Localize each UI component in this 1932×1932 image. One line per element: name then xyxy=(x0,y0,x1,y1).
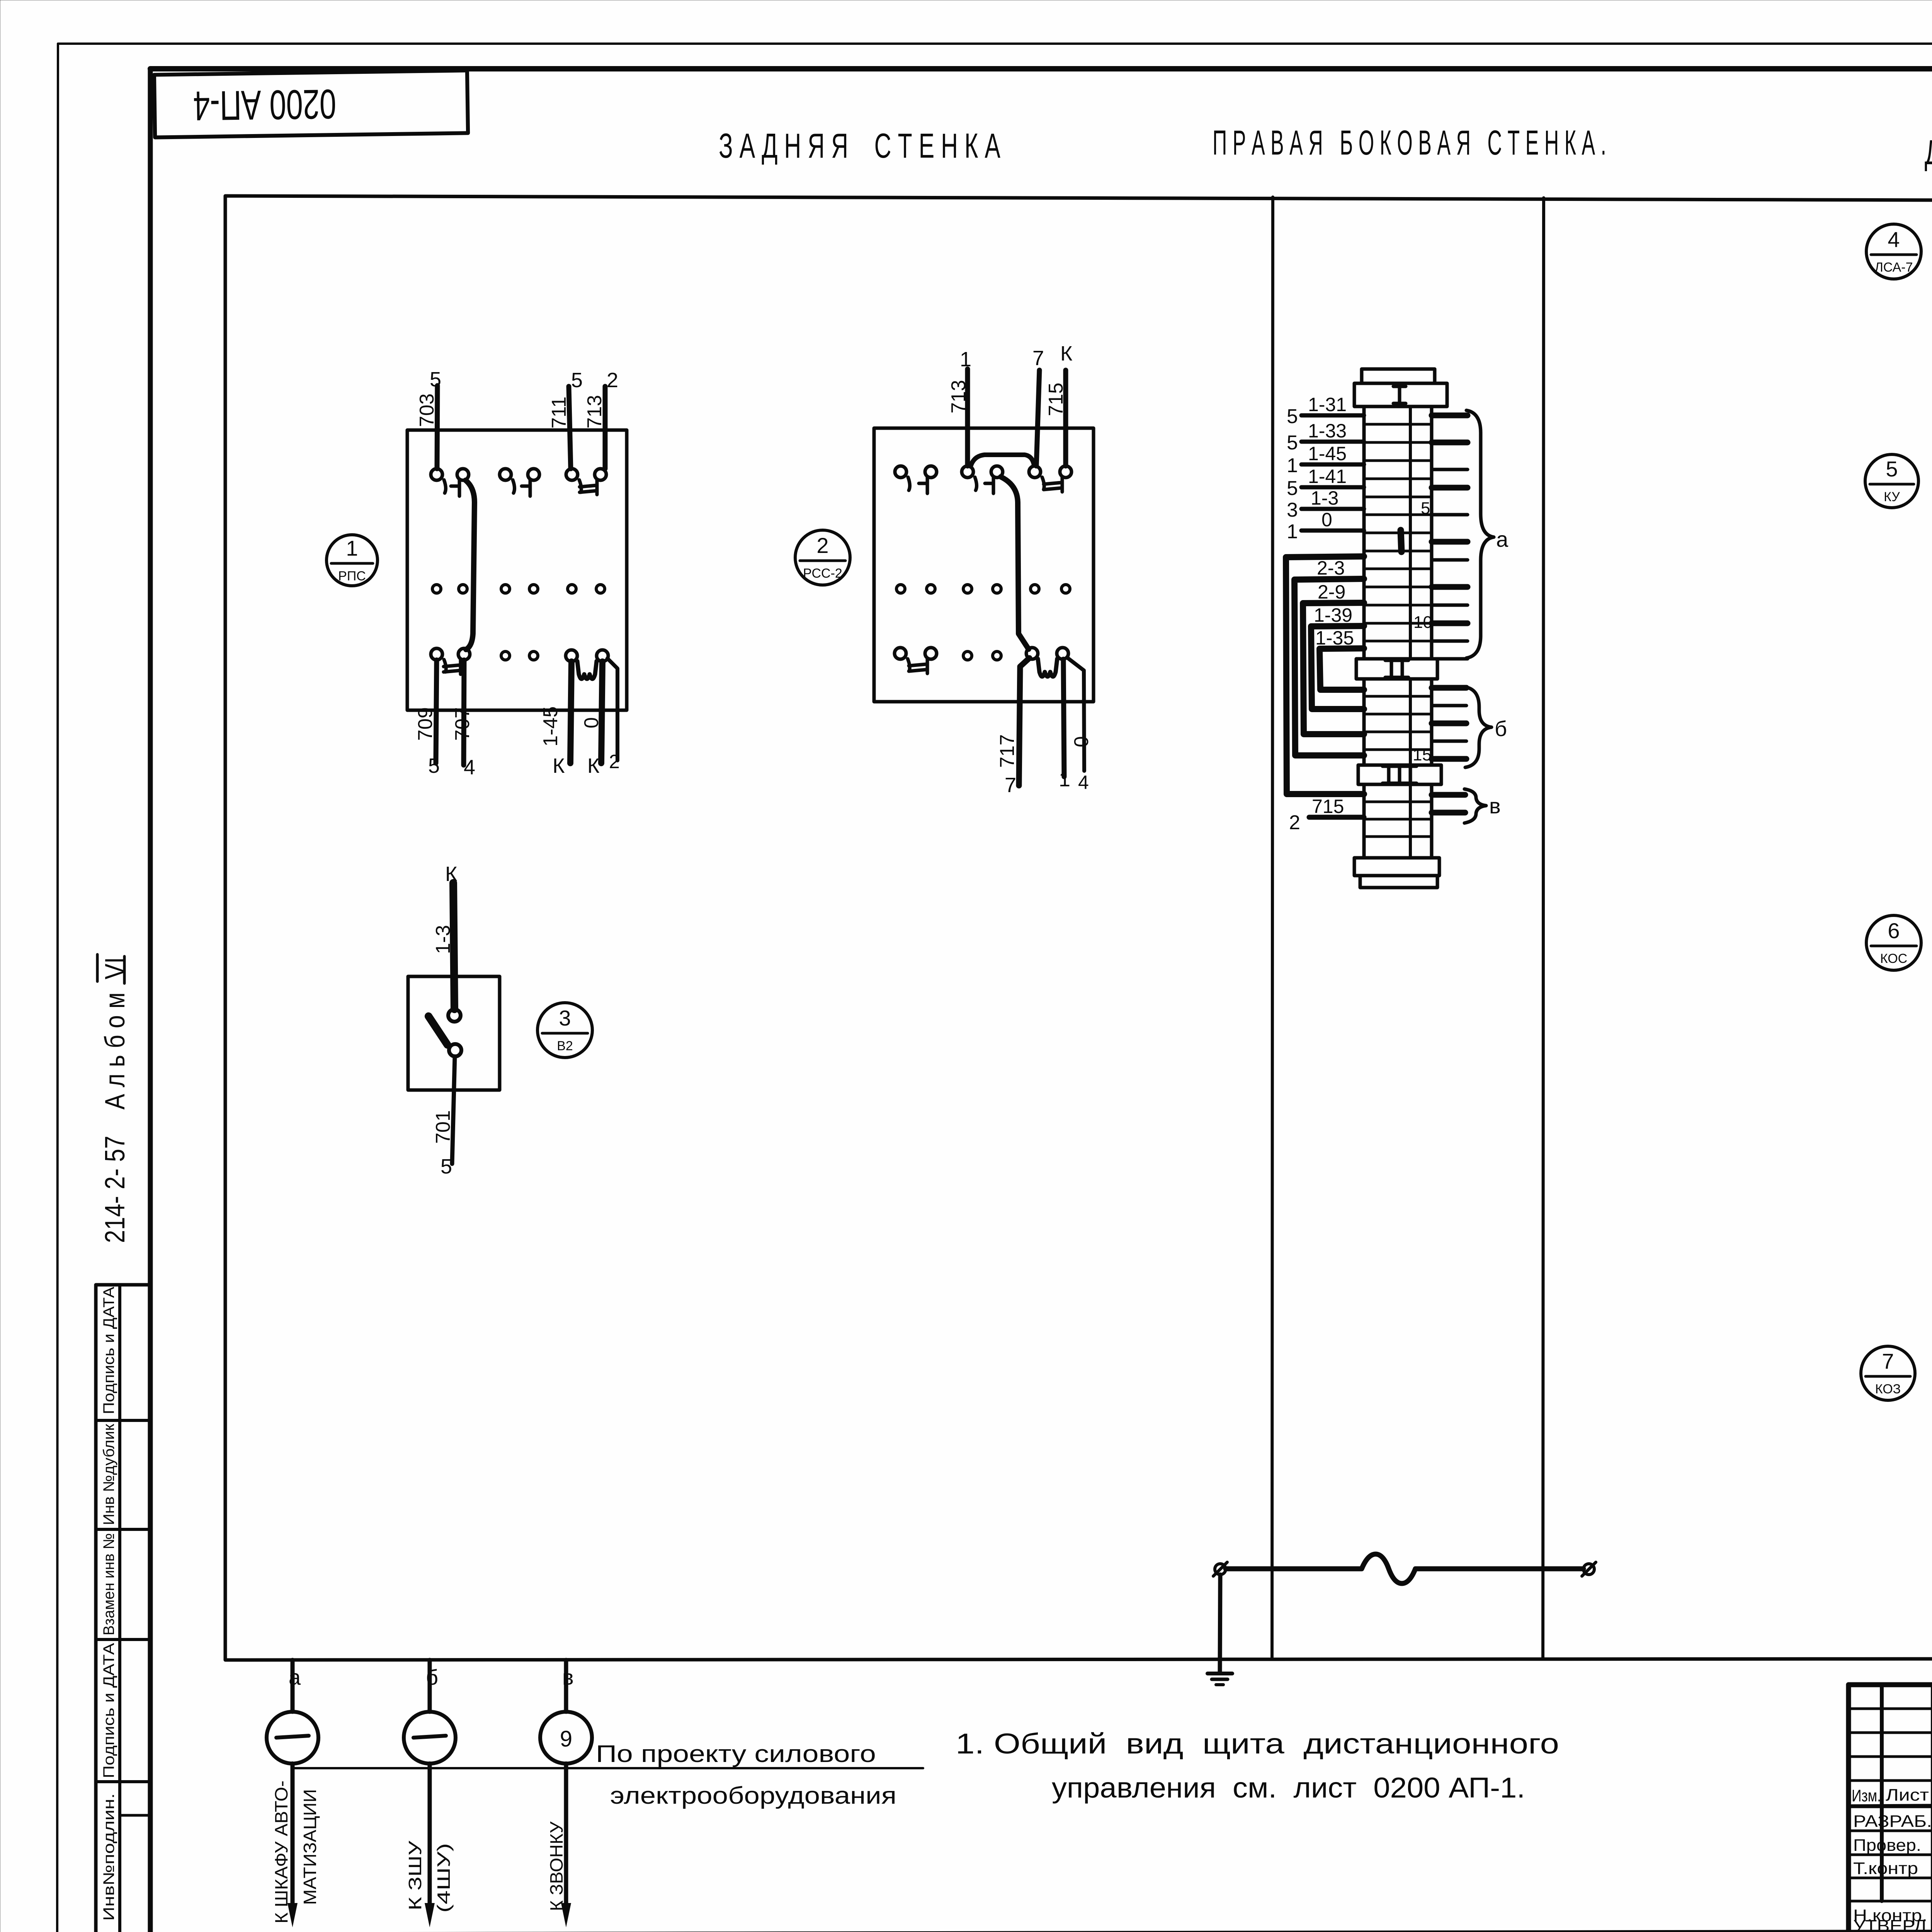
relay coil symbol xyxy=(1038,659,1057,677)
svg-text:1-41: 1-41 xyxy=(1308,466,1347,487)
wire 715 to strip xyxy=(1309,815,1364,820)
svg-text:2-9: 2-9 xyxy=(1318,581,1345,603)
loop wire 2-9 xyxy=(1303,603,1364,734)
svg-text:3: 3 xyxy=(559,1006,571,1030)
wire 707 xyxy=(464,660,464,765)
wire 703 xyxy=(437,386,437,469)
svg-text:1: 1 xyxy=(960,348,971,371)
designator circle 2/РСС-2 xyxy=(795,530,850,585)
contact symbol (NO) xyxy=(513,480,515,493)
РПС middle pins xyxy=(432,585,441,593)
cable to automation cabinet xyxy=(267,1660,320,1927)
svg-text:Взамен инв №: Взамен инв № xyxy=(100,1533,117,1636)
svg-text:Инв№подлин.: Инв№подлин. xyxy=(100,1793,117,1921)
rungs section I xyxy=(1364,423,1432,426)
loop wire row9 to section III xyxy=(1286,556,1364,794)
svg-text:1-31: 1-31 xyxy=(1308,394,1347,415)
svg-text:УТВЕРД.: УТВЕРД. xyxy=(1853,1917,1932,1932)
margin stamp table xyxy=(96,1285,150,1932)
svg-text:КОЗ: КОЗ xyxy=(1875,1382,1901,1396)
svg-text:Инв №дублик: Инв №дублик xyxy=(100,1423,117,1525)
brace б xyxy=(1465,687,1492,767)
loop wire 2-3 xyxy=(1294,579,1364,755)
svg-text:К ЗШУ: К ЗШУ xyxy=(405,1840,425,1910)
РПС coil terminals xyxy=(566,650,577,662)
sheet frame xyxy=(150,66,1932,71)
svg-text:1-35: 1-35 xyxy=(1315,627,1354,649)
svg-text:214- 2- 57 А л ь б о м VI: 214- 2- 57 А л ь б о м VI xyxy=(100,957,131,1243)
wire 7 (РСС-2 top) xyxy=(1036,370,1039,466)
svg-text:К: К xyxy=(1060,342,1073,365)
svg-text:6: 6 xyxy=(1888,918,1900,943)
svg-text:7: 7 xyxy=(1032,347,1044,370)
svg-text:Изм.: Изм. xyxy=(1852,1786,1881,1805)
В2 lever xyxy=(429,1016,447,1045)
РСС-2 coil terminals xyxy=(1026,648,1038,659)
contact symbol (NO) xyxy=(975,477,977,490)
svg-text:ЛСА-7: ЛСА-7 xyxy=(1874,260,1913,275)
wire 1-45 xyxy=(570,662,571,763)
label I xyxy=(1398,386,1401,403)
svg-text:2: 2 xyxy=(816,533,828,558)
title block column lines (left part) xyxy=(1880,1685,1884,1901)
strip right stubs section III xyxy=(1432,792,1465,798)
РСС-2 middle pins xyxy=(896,585,905,593)
svg-text:П Р А В А Я Б О К О В А Я: П Р А В А Я Б О К О В А Я С Т Е Н К А . xyxy=(1213,124,1606,162)
designator circle 7/КОЗ xyxy=(1861,1346,1915,1400)
svg-text:1-3: 1-3 xyxy=(1311,487,1338,509)
strip right stubs section I xyxy=(1432,413,1468,418)
svg-text:Провер.: Провер. xyxy=(1853,1836,1921,1855)
doc code box 0200 АП-4 (rotated) xyxy=(154,70,468,137)
wire 4 (diagonal tap РСС-2) xyxy=(1067,658,1084,771)
ground symbol xyxy=(1207,1672,1232,1675)
svg-text:713: 713 xyxy=(947,380,970,413)
svg-text:К ШКАФУ АВТО-: К ШКАФУ АВТО- xyxy=(271,1781,291,1923)
svg-text:МАТИЗАЦИИ: МАТИЗАЦИИ xyxy=(300,1789,320,1905)
svg-text:1-39: 1-39 xyxy=(1314,604,1352,626)
svg-text:9: 9 xyxy=(560,1726,572,1752)
left jumper terminal xyxy=(1215,1564,1226,1575)
svg-text:5: 5 xyxy=(440,1155,452,1178)
svg-text:Лист: Лист xyxy=(1886,1786,1929,1804)
svg-text:4: 4 xyxy=(1078,772,1089,793)
svg-text:7: 7 xyxy=(1005,774,1016,797)
ground jumper wire with flexible link xyxy=(1207,1554,1596,1685)
brace a xyxy=(1466,410,1494,658)
section III header box xyxy=(1358,765,1441,784)
contact symbol (NC) xyxy=(444,660,446,672)
svg-text:электрооборудования: электрооборудования xyxy=(610,1782,896,1809)
wall divider right (between right side wall and door) xyxy=(1543,198,1544,1659)
wire 1-31 to strip xyxy=(1301,413,1364,418)
РПС bottom-left terminals xyxy=(431,648,442,660)
rungs section III xyxy=(1364,801,1432,803)
svg-text:1-45: 1-45 xyxy=(1308,443,1347,464)
section II header box xyxy=(1356,659,1437,679)
svg-text:К: К xyxy=(445,862,457,886)
terminal block КОЗ (component 7) xyxy=(1861,1202,1932,1610)
svg-text:(4ШУ): (4ШУ) xyxy=(434,1843,454,1913)
wire 2 (diagonal tap) xyxy=(607,658,617,760)
wire 701 / 5 xyxy=(452,1056,455,1164)
РСС-2 lower middle pins xyxy=(963,651,972,660)
svg-text:701: 701 xyxy=(432,1110,454,1144)
title block outer box xyxy=(1849,1682,1932,1687)
РПС body xyxy=(407,430,627,710)
svg-text:1: 1 xyxy=(1287,520,1298,543)
wire 715 xyxy=(1063,370,1068,466)
bridge wire pair2-left to pair3-left xyxy=(971,455,1034,466)
svg-text:0200 АП-4: 0200 АП-4 xyxy=(193,81,337,129)
svg-text:1: 1 xyxy=(1287,454,1298,477)
svg-text:2: 2 xyxy=(1289,811,1300,834)
ground lead xyxy=(1220,1575,1220,1673)
svg-text:0: 0 xyxy=(1321,509,1332,531)
svg-text:5: 5 xyxy=(1421,499,1430,518)
РСС-2 body xyxy=(874,428,1094,702)
svg-text:0: 0 xyxy=(580,717,603,728)
РПС lower middle pins xyxy=(501,651,510,660)
jumper wire pair2-right down to coil-left xyxy=(1001,477,1029,649)
strip rails xyxy=(1364,406,1432,858)
wire 0 / 1 (РСС-2 bottom) xyxy=(1063,659,1064,777)
svg-text:В2: В2 xyxy=(557,1039,573,1053)
section I header box xyxy=(1354,383,1447,406)
designator circle 3/В2 xyxy=(537,1003,592,1058)
right jumper terminal xyxy=(1583,1564,1594,1575)
contact symbol (NO) xyxy=(908,477,910,490)
svg-text:а: а xyxy=(1496,527,1509,551)
brace в xyxy=(1464,789,1486,823)
svg-text:15: 15 xyxy=(1413,745,1432,764)
relay coil symbol xyxy=(577,661,597,679)
svg-text:К: К xyxy=(553,754,565,777)
svg-text:707: 707 xyxy=(451,707,474,741)
svg-text:4: 4 xyxy=(1888,227,1900,252)
wire 713 xyxy=(603,386,608,469)
svg-text:713: 713 xyxy=(583,395,606,429)
svg-text:5: 5 xyxy=(1287,432,1298,454)
terminal block КОС (component 6) xyxy=(1866,763,1932,1178)
svg-text:2: 2 xyxy=(609,751,620,772)
РПС top terminals xyxy=(431,469,442,480)
strip right stubs section II xyxy=(1432,685,1466,691)
svg-text:5: 5 xyxy=(428,754,440,777)
svg-text:КУ: КУ xyxy=(1884,490,1900,504)
svg-text:КОС: КОС xyxy=(1880,951,1907,966)
svg-text:7: 7 xyxy=(1882,1349,1894,1373)
terminal block КУ (component 5) xyxy=(1865,328,1932,753)
svg-text:5: 5 xyxy=(1886,457,1898,481)
wire 717 xyxy=(1019,658,1029,786)
svg-text:715: 715 xyxy=(1312,796,1344,817)
wall divider left (between back wall and right side wall) xyxy=(1272,197,1273,1659)
В2 body xyxy=(408,976,500,1090)
wire 711 xyxy=(569,386,571,469)
svg-text:РАЗРАБ.: РАЗРАБ. xyxy=(1853,1812,1932,1831)
wire 1-33 to strip xyxy=(1301,440,1364,444)
svg-text:Подпись и ДАТА: Подпись и ДАТА xyxy=(100,1287,117,1414)
contact symbol (NO) xyxy=(444,480,446,493)
cable to bell (9) xyxy=(540,1660,592,1927)
svg-text:управления см. лист 0200 АП: управления см. лист 0200 АП-1. xyxy=(1052,1772,1525,1804)
relay РПС (component 1) xyxy=(327,368,627,779)
wire 713 (РСС-2) xyxy=(965,369,970,466)
svg-text:РПС: РПС xyxy=(338,569,366,583)
В2 lower contact xyxy=(449,1044,461,1056)
relay РСС-2 (component 2) xyxy=(795,342,1094,797)
svg-text:3: 3 xyxy=(1287,499,1298,521)
jumper wire from top contact to bottom contact xyxy=(466,480,474,650)
overline of VI xyxy=(96,954,99,981)
В2 upper contact xyxy=(448,1009,461,1022)
switch В2 (component 3) xyxy=(408,862,592,1178)
РСС-2 bottom-left terminals xyxy=(895,648,906,659)
svg-text:717: 717 xyxy=(996,734,1019,768)
designator circle 4/ЛСА-7 xyxy=(1866,224,1921,279)
cable to ЗШУ xyxy=(404,1660,456,1927)
svg-text:б: б xyxy=(1495,716,1507,741)
svg-text:1-45: 1-45 xyxy=(539,706,562,747)
svg-text:715: 715 xyxy=(1045,383,1067,416)
designator circle 6/КОС xyxy=(1866,915,1921,970)
strip top cap xyxy=(1362,369,1435,383)
loop wire 1-35 xyxy=(1320,648,1364,690)
strip bottom caps xyxy=(1354,858,1439,876)
svg-text:5: 5 xyxy=(1287,477,1298,500)
wire 1-41 to strip xyxy=(1301,485,1364,490)
outer thin border xyxy=(58,43,1932,45)
designator circle 1/РПС xyxy=(327,535,378,586)
contact symbol (NC) xyxy=(908,659,910,671)
designator circle 5/КУ xyxy=(1865,454,1918,508)
wire 1-3 / К (thick) xyxy=(453,883,454,1009)
contact symbol (NC) xyxy=(1042,477,1044,490)
svg-text:711: 711 xyxy=(548,396,570,429)
connecting rule under cable circles xyxy=(293,1767,923,1769)
svg-text:709: 709 xyxy=(414,707,437,741)
loop wire 1-39 xyxy=(1311,626,1364,709)
svg-text:Т.контр: Т.контр xyxy=(1853,1859,1918,1878)
svg-text:З А Д Н Я Я С Т Е Н К А: З А Д Н Я Я С Т Е Н К А xyxy=(719,127,1000,165)
svg-text:2: 2 xyxy=(607,369,618,392)
svg-text:0: 0 xyxy=(1070,736,1093,747)
terminal strip with sections I II III xyxy=(1286,369,1509,888)
title block row lines (left part) xyxy=(1849,1708,1932,1710)
svg-text:2-3: 2-3 xyxy=(1317,557,1345,579)
svg-text:По проекту силового: По проекту силового xyxy=(596,1741,876,1767)
svg-text:5: 5 xyxy=(1287,405,1298,428)
wire 0 xyxy=(601,662,602,763)
rungs section II xyxy=(1364,695,1432,698)
svg-text:1: 1 xyxy=(1059,768,1070,791)
svg-text:4: 4 xyxy=(464,756,475,779)
svg-text:К: К xyxy=(587,754,600,777)
svg-text:РСС-2: РСС-2 xyxy=(803,566,842,581)
title block xyxy=(1849,1685,1932,1932)
drawing area frame xyxy=(225,196,1932,1660)
svg-text:Подпись и ДАТА: Подпись и ДАТА xyxy=(100,1643,117,1778)
wire 709 xyxy=(436,660,437,763)
РСС-2 top terminals xyxy=(895,466,906,478)
jumper wire xyxy=(1226,1554,1583,1583)
signal lamp ЛСА-7 (component 4) xyxy=(1866,224,1932,292)
svg-text:703: 703 xyxy=(416,393,438,427)
wire 0 to strip xyxy=(1301,529,1364,533)
wire 1-45 to strip xyxy=(1301,463,1364,467)
contact symbol (NC) xyxy=(579,480,581,492)
svg-text:1-3: 1-3 xyxy=(432,925,454,954)
svg-text:5: 5 xyxy=(571,369,583,392)
svg-text:1. Общий вид щита дистанцио: 1. Общий вид щита дистанционного xyxy=(956,1728,1559,1760)
svg-text:Д В Е Р Ь ( В И Д С З А Д: Д В Е Р Ь ( В И Д С З А Д И ) xyxy=(1925,133,1932,172)
svg-text:1: 1 xyxy=(346,536,358,560)
wire 1-3 to strip xyxy=(1301,507,1364,511)
svg-text:5: 5 xyxy=(430,368,441,391)
svg-text:1-33: 1-33 xyxy=(1308,420,1347,442)
tick mark in strip xyxy=(1401,530,1401,552)
svg-text:в: в xyxy=(1489,794,1501,818)
svg-text:К ЗВОНКУ: К ЗВОНКУ xyxy=(546,1821,566,1911)
